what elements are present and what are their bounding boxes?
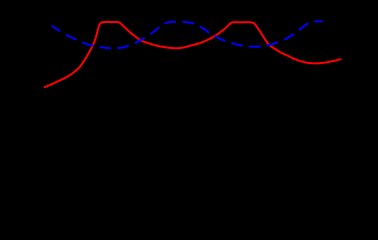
red solid curve	[44, 22, 342, 87]
chart canvas	[0, 0, 378, 99]
blue dashed curve	[52, 21, 323, 48]
